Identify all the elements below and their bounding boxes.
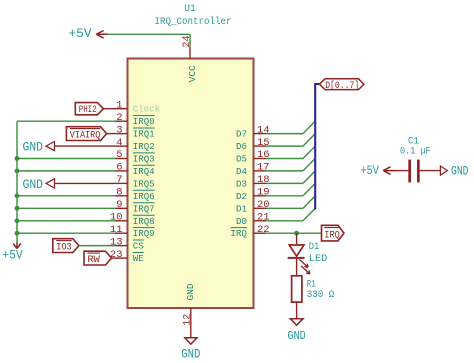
svg-text:+5V: +5V: [69, 27, 92, 41]
svg-text:GND: GND: [23, 178, 44, 192]
svg-text:WE: WE: [133, 253, 144, 264]
svg-text:GND: GND: [23, 141, 44, 155]
svg-text:5: 5: [116, 149, 122, 161]
svg-text:IRQ0: IRQ0: [133, 116, 155, 127]
svg-text:Clock: Clock: [133, 104, 160, 115]
svg-text:IRQ1: IRQ1: [133, 129, 155, 140]
svg-text:8: 8: [116, 187, 122, 199]
svg-text:D1: D1: [236, 203, 247, 214]
svg-text:D5: D5: [236, 154, 247, 165]
svg-text:9: 9: [116, 199, 122, 211]
svg-text:IRQ: IRQ: [324, 230, 340, 241]
svg-text:IRQ8: IRQ8: [133, 216, 155, 227]
svg-text:IRQ2: IRQ2: [133, 141, 155, 152]
svg-text:CS: CS: [133, 241, 144, 252]
svg-text:0.1 µF: 0.1 µF: [400, 146, 431, 158]
svg-text:7: 7: [116, 174, 122, 186]
svg-text:GND: GND: [181, 348, 200, 362]
svg-text:+5V: +5V: [2, 248, 23, 262]
svg-text:D0: D0: [236, 216, 247, 227]
svg-text:GND: GND: [451, 164, 469, 178]
svg-text:18: 18: [257, 174, 270, 186]
svg-text:11: 11: [110, 224, 123, 236]
svg-text:IRQ4: IRQ4: [133, 166, 155, 177]
svg-text:15: 15: [257, 137, 270, 149]
svg-text:23: 23: [110, 249, 123, 261]
svg-text:20: 20: [257, 199, 270, 211]
svg-text:D3: D3: [236, 178, 247, 189]
svg-text:+5V: +5V: [360, 164, 379, 178]
svg-text:19: 19: [257, 187, 270, 199]
svg-text:IRQ: IRQ: [231, 228, 248, 239]
svg-text:16: 16: [257, 149, 270, 161]
svg-text:6: 6: [116, 162, 122, 174]
svg-text:D[0..7]: D[0..7]: [325, 80, 359, 92]
svg-text:IRQ7: IRQ7: [133, 203, 155, 214]
svg-text:VCC: VCC: [187, 65, 198, 82]
svg-text:IRQ9: IRQ9: [133, 228, 155, 239]
svg-text:21: 21: [257, 211, 270, 223]
svg-text:12: 12: [181, 314, 193, 326]
svg-text:1: 1: [116, 99, 122, 111]
svg-text:D2: D2: [236, 191, 247, 202]
svg-text:D6: D6: [236, 141, 247, 152]
svg-text:RW: RW: [87, 255, 100, 266]
svg-text:GND: GND: [185, 283, 196, 300]
svg-text:D1: D1: [309, 242, 320, 253]
svg-text:22: 22: [257, 224, 270, 236]
svg-text:10: 10: [110, 211, 123, 223]
svg-text:U1: U1: [184, 3, 196, 15]
svg-text:17: 17: [257, 162, 270, 174]
svg-text:330 Ω: 330 Ω: [307, 290, 335, 301]
svg-text:2: 2: [116, 112, 122, 124]
svg-text:13: 13: [110, 236, 123, 248]
svg-text:VIAIRQ: VIAIRQ: [70, 131, 101, 142]
svg-text:D7: D7: [236, 129, 247, 140]
svg-text:IRQ3: IRQ3: [133, 154, 155, 165]
svg-text:4: 4: [116, 137, 122, 149]
svg-text:D4: D4: [236, 166, 247, 177]
svg-text:IRQ5: IRQ5: [133, 178, 155, 189]
svg-text:3: 3: [116, 124, 122, 136]
svg-text:IRQ6: IRQ6: [133, 191, 155, 202]
svg-text:IO3: IO3: [56, 243, 71, 254]
svg-text:LED: LED: [309, 254, 328, 265]
svg-text:24: 24: [181, 36, 193, 48]
svg-text:14: 14: [257, 124, 270, 136]
svg-text:IRQ_Controller: IRQ_Controller: [155, 16, 232, 28]
svg-text:GND: GND: [287, 329, 306, 343]
svg-text:PHI2: PHI2: [79, 105, 97, 116]
